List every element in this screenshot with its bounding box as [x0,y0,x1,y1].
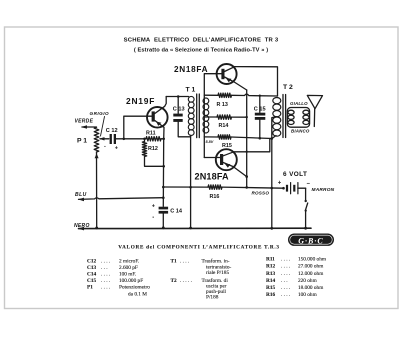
node Q3 emitter joins vertical [245,175,248,178]
wire R14 rail left [204,116,217,118]
svg-text:5.8V: 5.8V [206,140,214,144]
transistor Q3 2N18FA body [216,149,237,170]
wire base vertical 2N19F [124,116,152,139]
resistor R15 [218,135,231,139]
svg-text:. . . .: . . . . [101,258,110,264]
T1 secondary coil [203,98,209,133]
node R14-emitterline crossing [246,116,248,118]
svg-text:T 2: T 2 [283,84,293,91]
wire R15 rail left [204,136,218,138]
transformer T2 primary coil [273,98,281,137]
wire R16 rail right to battery [222,187,284,188]
resistor R14 [217,115,232,119]
input terminal VERDE wire+arrow [82,126,97,128]
node T1ground-R16 crossing [189,186,192,189]
svg-text:2.600 pF: 2.600 pF [119,265,138,271]
battery B1 6V [282,187,285,190]
svg-text:220 ohm: 220 ohm [298,278,318,284]
earphone cone lead [313,109,315,127]
resistor R11 [146,137,161,141]
node base-drop junction [123,138,126,141]
Q3 base wire [204,157,220,159]
svg-text:R14: R14 [219,123,229,129]
Q2 emitter lead with arrow [225,77,247,90]
GBC logo [288,234,334,246]
earphone left coil [288,110,294,114]
wire R13 right to T2 top corner [232,94,278,96]
wire Q1 collector rail [166,96,188,98]
node C14-ground junction [162,226,165,229]
svg-text:BLU: BLU [75,192,87,198]
T1 primary bottom wire to ground [190,135,192,228]
svg-text:( Estratto da « Selezione di T: ( Estratto da « Selezione di Tecnica Rad… [134,47,268,53]
svg-text:T 1: T 1 [186,86,196,93]
svg-text:GRIGIO: GRIGIO [90,111,110,116]
potentiometer P1 [94,127,99,152]
node emitterline-R16 junction [245,186,248,189]
svg-text:150.000 ohm: 150.000 ohm [298,257,327,263]
svg-text:+: + [152,204,155,210]
svg-text:T2: T2 [171,278,178,284]
svg-text:R16: R16 [266,292,275,298]
svg-text:R13: R13 [266,271,275,277]
node P1-ground junction [95,227,98,230]
T1 core lines [197,94,200,138]
wiper arrow wire from C12 [100,138,109,140]
node R16 rail left junction [162,186,165,189]
svg-text:C 15: C 15 [254,106,266,112]
Q3 emitter lead with arrow [223,163,247,177]
svg-text:C 14: C 14 [170,209,183,215]
resistor R12 [142,142,146,157]
svg-text:P/188: P/188 [206,294,219,300]
node T1wire-ground junction [189,227,192,230]
transistor Q1 2N19F body [147,107,168,128]
svg-text:ROSSO: ROSSO [252,190,270,195]
svg-text:R12: R12 [148,146,158,152]
svg-text:Potenziometro: Potenziometro [119,285,150,291]
node emitter-R12 junction [162,165,165,168]
wire R16 rail [163,186,208,188]
svg-text:6 VOLT: 6 VOLT [283,171,307,178]
transistor Q2 2N18FA body [217,64,237,84]
wire Q2 collector to T2 top [235,67,278,96]
capacitor C13 [177,97,179,114]
wire BLU rail with arrow [79,198,164,200]
svg-text:VERDE: VERDE [75,119,94,125]
svg-text:R15: R15 [266,285,275,291]
svg-text:C 12: C 12 [106,128,118,134]
node BLU-emitterline junction [162,196,165,199]
svg-text:. . . . .: . . . . . [180,278,192,284]
svg-text:2N18FA: 2N18FA [174,65,208,74]
svg-text:C15: C15 [87,278,96,284]
svg-text:-: - [104,144,106,150]
node C15 bottom junction [259,137,262,140]
node R12 top junction [143,138,146,141]
svg-text:GIALLO: GIALLO [290,101,308,106]
capacitor C12 electrolytic [110,134,112,144]
svg-text:18.000 ohm: 18.000 ohm [298,285,324,291]
wire R13 rail [204,94,218,96]
svg-text:. . . .: . . . . [281,257,290,263]
Q2 collector lead [225,67,235,72]
T1 secondary spine wire [204,74,221,98]
node centretap-ground junction [270,227,273,230]
wire emitters vertical [246,90,248,187]
svg-text:27.000 ohm: 27.000 ohm [298,264,324,270]
svg-text:riale P/185: riale P/185 [206,270,229,276]
resistor R16 [208,185,222,189]
switch S1 [305,188,307,199]
svg-text:C12: C12 [87,258,96,264]
svg-text:BIANCO: BIANCO [291,129,310,134]
earphone right coil [303,110,309,114]
Q1 base bar [152,111,155,121]
svg-text:MARRON: MARRON [312,187,335,193]
svg-text:2N19F: 2N19F [126,96,155,106]
svg-text:R11: R11 [146,130,156,136]
svg-text:100 mF.: 100 mF. [119,272,136,278]
svg-text:T1: T1 [171,259,178,265]
svg-text:R15: R15 [222,143,232,149]
svg-text:2N18FA: 2N18FA [195,172,230,182]
wire T2 centre tap to battery rail [272,117,277,229]
resistor R13 [218,93,232,97]
capacitor C14 electrolytic [159,207,169,210]
svg-text:R12: R12 [266,264,275,270]
wire R15 right to T2 bottom [231,136,276,139]
svg-text:2 microF.: 2 microF. [119,258,139,264]
wire Q1 emitter line down [162,139,164,207]
svg-text:. . . .: . . . . [281,292,290,298]
Q1 emitter lead with arrow [155,121,164,139]
svg-text:SCHEMA ELETTRICO DELL’AMPLIF: SCHEMA ELETTRICO DELL’AMPLIFICATORE TR 3 [124,37,279,43]
node Q3 collector crossing [246,151,248,153]
svg-text:R16: R16 [210,194,220,200]
GRIGIO leader line [101,117,105,137]
svg-text:12.000 ohm: 12.000 ohm [298,271,324,277]
svg-text:. . .: . . . [101,265,108,271]
svg-text:C13: C13 [87,265,96,271]
svg-text:. . . .: . . . . [101,278,110,284]
svg-text:G·B·C: G·B·C [298,236,323,245]
Q3 base bar [220,154,223,165]
wire C12 to base node and R11 [116,138,146,140]
node centretap-batteryrail crossing [271,187,274,190]
svg-text:P 1: P 1 [77,138,87,145]
node centretap-R15rail crossing [271,137,274,140]
P1 bottom wire to ground rail [96,152,98,228]
svg-text:R14: R14 [266,278,275,284]
svg-text:100 ohm: 100 ohm [298,292,318,298]
node switch-ground junction [304,227,307,230]
wire NERO ground rail [79,227,312,229]
svg-text:. . .: . . . [281,278,288,284]
svg-text:da 0.1 M: da 0.1 M [128,291,147,297]
wire R14 right joins emitter line [232,116,247,118]
wire R12 bottom to emitter line [145,157,164,167]
transformer T1 primary coil [188,96,194,135]
Q3 collector lead [223,139,270,156]
svg-text:-: - [152,215,154,221]
svg-text:C14: C14 [87,272,96,278]
svg-text:+: + [278,181,282,187]
node R11 right junction [162,138,165,141]
svg-text:. . . .: . . . . [281,271,290,277]
svg-text:. . . .: . . . . [101,272,110,278]
node C13 top junction [177,95,180,98]
Q1 collector lead [155,97,166,114]
svg-text:. . . .: . . . . [281,285,290,291]
wire R11 to emitter line [161,138,164,140]
svg-text:+: + [115,146,118,152]
svg-text:. . . .: . . . . [281,264,290,270]
svg-text:NERO: NERO [74,223,90,229]
svg-text:100.000 pF: 100.000 pF [119,278,143,284]
svg-text:VALORE del COMPONENTI L’AMP: VALORE del COMPONENTI L’AMPLIFICATORE T.… [118,245,279,251]
earphone cone triangle [307,95,322,108]
earphone body [287,108,309,128]
node C15 top junction [259,95,261,97]
svg-text:R 13: R 13 [217,102,228,108]
T2 core lines [283,95,286,138]
svg-text:. . . .: . . . . [180,259,189,265]
svg-text:P1: P1 [87,285,93,291]
capacitor C15 [259,96,261,113]
Q2 base bar [221,69,224,79]
svg-text:. . . .: . . . . [101,285,110,291]
svg-text:C 13: C 13 [173,107,185,113]
svg-text:R11: R11 [266,257,275,263]
